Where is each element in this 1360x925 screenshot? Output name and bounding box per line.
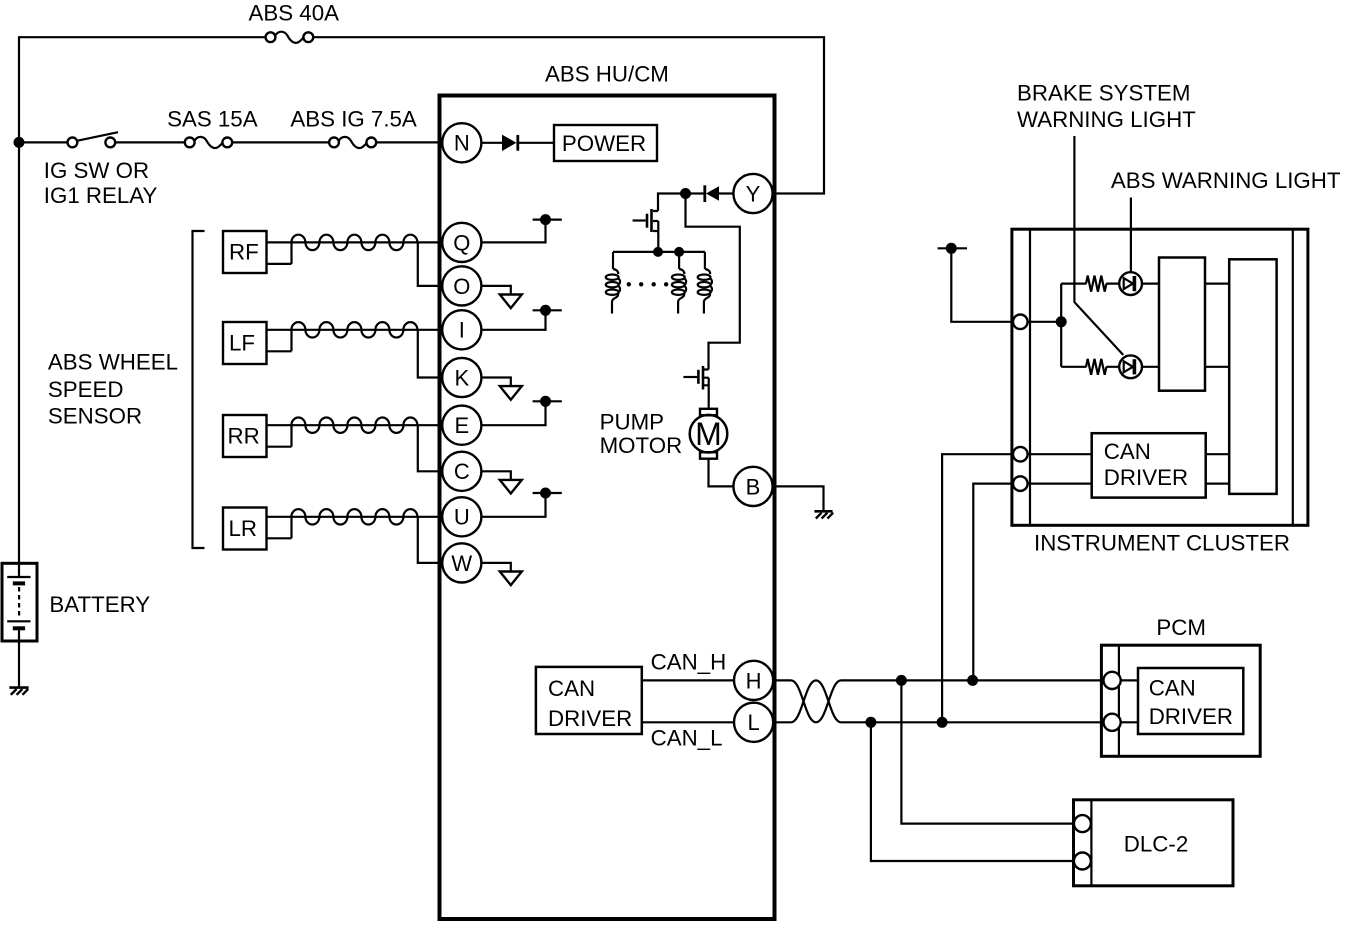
wire ABS lamp branch [1061,283,1159,285]
node B+ feed cluster [938,243,967,254]
terminal Y [733,174,772,213]
svg-text:WARNING LIGHT: WARNING LIGHT [1017,107,1196,132]
node lamp junction [1056,316,1067,327]
transistor Q2 pump FET [683,366,708,409]
terminal H [734,661,773,700]
wire O to signal ground [481,286,521,308]
terminal C [442,452,481,491]
switch IG SW OR IG1 RELAY [68,132,119,147]
svg-text:N: N [454,131,470,156]
svg-text:POWER: POWER [562,131,646,156]
inductor L1 valve solenoid [606,252,620,314]
svg-text:W: W [451,551,472,576]
svg-text:Q: Q [453,230,470,255]
terminal W [442,543,481,582]
box ABS HU/CM [440,96,775,920]
node solenoid right [674,247,684,257]
svg-text:ABS 40A: ABS 40A [249,1,340,26]
box CAN DRIVER (cluster) [1092,433,1206,497]
wire B to ground [773,486,824,510]
box INSTRUMENT CLUSTER [1012,229,1308,525]
box CAN DRIVER (ABS) [536,667,642,734]
diode D2 at Y [686,185,734,202]
wire cluster terminal 1 to CAN_L [942,454,1013,722]
terminal E [442,406,481,445]
svg-text:IG SW OR: IG SW OR [44,158,149,183]
wire lamp driver to MCU [1205,284,1229,367]
svg-text:LR: LR [229,516,258,541]
svg-text:CAN: CAN [1149,676,1196,701]
node battery junction [14,137,25,148]
node A supply junction [680,188,691,199]
inductor L2 valve solenoid [672,252,686,314]
svg-text:MOTOR: MOTOR [600,433,683,458]
wire C to signal ground [481,471,521,493]
wire cluster CAN driver pins [1028,454,1230,483]
svg-text:DRIVER: DRIVER [548,706,632,731]
terminal U [442,497,481,536]
node solenoid left [653,247,663,257]
svg-text:K: K [454,365,469,390]
svg-text:ABS WARNING LIGHT: ABS WARNING LIGHT [1111,168,1341,193]
motor M pump [690,409,734,487]
wire brake lamp branch [1061,366,1159,368]
svg-text:U: U [454,505,470,530]
sensor RF [223,231,443,286]
svg-text:SENSOR: SENSOR [48,403,142,428]
svg-text:B: B [746,474,761,499]
fuse SAS 15A [185,137,232,148]
wire CAN_L internal [642,721,735,723]
wire N to diode [481,142,502,144]
svg-text:DLC-2: DLC-2 [1124,831,1188,856]
terminal B [733,467,772,506]
sensor LF [223,322,443,378]
node CAN_H to DLC-2 [896,675,907,686]
terminal I [442,310,481,349]
svg-text:I: I [459,318,465,343]
svg-text:CAN: CAN [1104,439,1151,464]
wire solenoid bus [613,251,705,253]
terminal K [442,358,481,397]
wire PCM pins to CAN driver [1121,680,1138,722]
leader brake warning light [1074,136,1123,355]
resistor R1 [1086,276,1106,292]
svg-text:Y: Y [746,181,761,206]
transistor Q1 valve FET [633,209,659,252]
svg-text:PUMP: PUMP [600,409,664,434]
sensor RR [223,415,443,471]
wire CAN_H to DLC-2 [901,680,1074,823]
bracket sensor group [193,231,205,548]
wire IG feed [19,141,443,143]
wire twisted pair CAN_H [773,680,1103,722]
wire top B+ feed [19,37,824,193]
wire Q pull-up [481,214,561,242]
wire left battery rail [18,36,20,577]
svg-text:ABS WHEEL: ABS WHEEL [48,350,178,375]
svg-text:L: L [747,710,759,735]
terminal cluster pin 3 [1013,476,1028,491]
wire W to signal ground [481,563,521,585]
wire K to signal ground [481,378,521,400]
terminal Q [442,223,481,262]
svg-text:RF: RF [229,240,259,265]
ground pump [814,511,833,518]
wire node to lower FET [686,194,740,370]
terminal PCM pin 2 [1104,714,1121,731]
terminal cluster pin 2 [1013,447,1028,462]
wire cluster terminal 2 to CAN_H [973,484,1013,681]
block cluster MCU [1229,259,1276,494]
svg-text:LF: LF [229,331,255,356]
wire node to upper FET drain [653,194,686,212]
wire E pull-up [481,396,561,425]
wire B+ to cluster terminal [951,248,1013,321]
svg-text:DRIVER: DRIVER [1149,704,1233,729]
terminal DLC pin 1 [1074,815,1091,832]
box DLC-2 [1074,800,1234,886]
wire I pull-up [481,305,561,330]
svg-text:O: O [453,274,470,299]
fuse ABS IG 7.5A [329,137,376,148]
node CAN_H to cluster [967,675,978,686]
svg-text:RR: RR [228,424,260,449]
wire CAN_H internal [642,679,735,681]
inductor L3 valve solenoid [698,252,712,314]
diode D1 power [502,135,554,151]
wire twisted pair CAN_L [773,680,1103,722]
sensor LR [223,508,443,563]
fuse ABS 40A [266,32,314,43]
LED ABS warning light [1119,272,1142,295]
svg-text:E: E [454,413,469,438]
box POWER [554,125,657,161]
svg-text:CAN_L: CAN_L [651,725,723,750]
wire CAN_L to DLC-2 [871,722,1074,861]
svg-text:INSTRUMENT CLUSTER: INSTRUMENT CLUSTER [1034,530,1290,555]
svg-text:CAN_H: CAN_H [651,649,727,674]
terminal N [442,123,481,162]
svg-text:SPEED: SPEED [48,377,124,402]
terminal L [734,703,773,742]
terminal DLC pin 2 [1074,853,1091,870]
wire U pull-up [481,488,561,517]
svg-text:ABS HU/CM: ABS HU/CM [545,62,669,87]
terminal cluster pin 1 [1013,315,1028,330]
leader ABS warning light [1130,198,1132,272]
node CAN_L to DLC-2 [865,717,876,728]
svg-text:BRAKE SYSTEM: BRAKE SYSTEM [1017,80,1190,105]
svg-text:SAS 15A: SAS 15A [167,107,258,132]
box PCM [1101,645,1260,756]
svg-text:M: M [695,416,722,452]
dotted continuation marks [627,282,669,286]
block lamp driver [1159,258,1205,391]
svg-text:H: H [746,668,762,693]
svg-text:C: C [454,459,470,484]
resistor R2 [1086,359,1106,375]
svg-text:ABS IG 7.5A: ABS IG 7.5A [290,107,417,132]
terminal PCM pin 1 [1104,672,1121,689]
wire lamp feed junction [1028,284,1062,367]
svg-text:IG1 RELAY: IG1 RELAY [44,183,158,208]
node CAN_L to cluster [937,717,948,728]
terminal O [442,266,481,305]
battery [2,563,37,641]
LED brake system warning light [1119,355,1142,378]
svg-text:CAN: CAN [548,676,595,701]
svg-text:PCM: PCM [1156,615,1206,640]
ground battery [9,688,28,695]
box CAN DRIVER (PCM) [1138,668,1243,734]
wire battery to ground [18,628,20,687]
svg-text:DRIVER: DRIVER [1104,465,1188,490]
svg-text:BATTERY: BATTERY [49,592,150,617]
